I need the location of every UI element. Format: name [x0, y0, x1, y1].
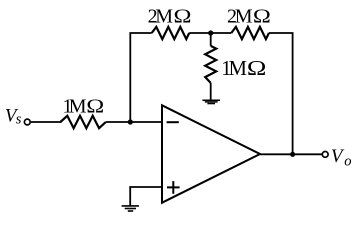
- wire non-inverting input with stub to ground G2: [130, 187, 161, 206]
- wire R4 to ground: [210, 83, 212, 100]
- wire op-amp output: [260, 153, 322, 155]
- resistor R3 2M ohm (feedback right): [231, 27, 269, 39]
- node C junction dot (output node): [290, 152, 295, 157]
- svg-text:s: s: [16, 112, 22, 128]
- node Vs input terminal: [24, 119, 30, 125]
- svg-text:V: V: [331, 146, 345, 167]
- op-amp U1 plus sign (non-inverting input): [167, 181, 180, 194]
- resistor R4 1M ohm (shunt): [205, 46, 216, 83]
- wire between R2 and R3: [189, 32, 231, 34]
- wire Vs to R1: [31, 121, 62, 123]
- svg-text:o: o: [344, 153, 351, 169]
- node A junction dot (inverting input node): [128, 119, 133, 124]
- svg-text:2MΩ: 2MΩ: [227, 5, 271, 27]
- svg-text:1MΩ: 1MΩ: [63, 96, 105, 118]
- op-amp U1: [162, 105, 260, 202]
- wire R1 to op-amp inverting input: [106, 121, 161, 123]
- ground G2 (non-inverting input): [122, 206, 139, 211]
- resistor R2 2M ohm (feedback left): [152, 27, 190, 39]
- wire node A up to feedback network and top-left corner segment: [130, 33, 151, 122]
- wire R3 to output node down right side: [269, 33, 293, 154]
- wire node B down to R4: [210, 33, 212, 46]
- node B junction dot (feedback middle node): [208, 30, 213, 35]
- svg-text:2MΩ: 2MΩ: [148, 5, 192, 27]
- ground G1 (below R4): [202, 100, 220, 103]
- resistor R1 1M ohm (input): [60, 116, 105, 128]
- node Vo output terminal: [322, 152, 328, 158]
- op-amp U1 minus sign (inverting input): [167, 121, 179, 123]
- svg-text:1MΩ: 1MΩ: [221, 58, 266, 80]
